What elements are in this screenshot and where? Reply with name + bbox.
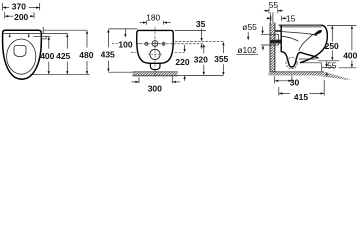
- rear view vertical centerline: [154, 27, 156, 77]
- dimension 320 (rear view): [194, 44, 208, 75]
- svg-text:355: 355: [214, 54, 228, 64]
- svg-text:400: 400: [40, 51, 54, 61]
- extension line (400 top ref / hinge axis): [46, 35, 50, 37]
- svg-text:370: 370: [12, 1, 26, 11]
- extension line (rear top edge, right): [174, 30, 206, 32]
- svg-text:415: 415: [294, 92, 308, 102]
- dimension 425 (plan depth): [56, 34, 70, 75]
- svg-text:ø102: ø102: [237, 45, 257, 55]
- svg-text:ø55: ø55: [242, 22, 257, 32]
- svg-text:55: 55: [269, 0, 279, 10]
- svg-text:435: 435: [101, 50, 115, 60]
- extension vertical (front base to floor): [321, 63, 323, 71]
- rear view outlet spigot (U shape): [150, 63, 160, 69]
- dashed row stub left of rear view: [131, 51, 136, 53]
- rear view outlet circle: [148, 49, 162, 59]
- drain outlet dashed circle: [286, 58, 297, 69]
- svg-text:55: 55: [327, 61, 337, 71]
- svg-text:200: 200: [14, 12, 28, 22]
- svg-text:400: 400: [343, 50, 357, 60]
- extension line (plan bottom ref): [30, 74, 90, 76]
- extension line (480 top ref): [43, 29, 88, 31]
- svg-text:480: 480: [79, 50, 93, 60]
- dashed ref row (bolt axis / 320): [136, 43, 204, 45]
- svg-text:300: 300: [148, 83, 162, 93]
- dimension 35 (rear view): [196, 19, 206, 49]
- plan water sump: [14, 46, 26, 57]
- label o102 with leader line: [237, 45, 259, 55]
- extension line (425 top ref): [41, 32, 68, 34]
- svg-text:250: 250: [325, 41, 339, 51]
- plan inlet stub (top right): [41, 36, 46, 39]
- ground hatch under side view: [269, 72, 352, 80]
- dimension 435 (front view height): [101, 29, 115, 72]
- rear view water inlet circle: [151, 40, 159, 48]
- extension line (middle floor ref left): [108, 71, 132, 73]
- extension verticals above wall: [269, 12, 271, 22]
- svg-text:35: 35: [196, 19, 206, 29]
- rear view fixing hole left: [145, 42, 148, 46]
- side view base band top: [299, 58, 317, 60]
- rear view fixing hole right: [162, 42, 165, 46]
- plan hinge right (tick and dot): [28, 34, 30, 36]
- side view rim underside line: [282, 32, 317, 36]
- side view bowl funnel interior line: [299, 34, 314, 51]
- dimension 220 (rear view): [175, 45, 189, 81]
- dimension 415 (side view bottom): [279, 80, 324, 102]
- svg-text:100: 100: [118, 40, 132, 50]
- dimension 480 (plan depth): [79, 30, 93, 74]
- wall section (hatched): [270, 23, 275, 72]
- plan cistern lid line: [3, 32, 40, 34]
- dimension 180 (rear view bolt spacing): [140, 13, 171, 25]
- fixing stud: [275, 30, 281, 32]
- svg-text:15: 15: [286, 13, 296, 23]
- extension line refC (400 floor ref): [339, 67, 356, 69]
- extension line refB (sump bottom): [322, 67, 335, 69]
- dimension 100 (rear view top to bolt axis): [112, 29, 142, 50]
- svg-text:220: 220: [175, 57, 189, 67]
- dimension 55 (side view bottom): [325, 61, 336, 77]
- plan flush bend notch line: [42, 27, 44, 34]
- dimension 355 (rear view): [214, 42, 228, 76]
- side view body back and sump outline: [281, 25, 318, 67]
- plan seat opening oval: [7, 39, 36, 74]
- plan view outer outline: [3, 30, 42, 79]
- dimension 30 (side view bottom): [275, 76, 300, 88]
- side view base band bottom: [300, 62, 322, 64]
- extension line refA (pan base): [318, 60, 339, 62]
- ground hatch under rear view: [133, 72, 178, 76]
- side view body outline front: [300, 25, 327, 63]
- dimension 55 (side view top): [264, 0, 283, 13]
- plan hinge axis line: [34, 35, 42, 37]
- dimension 370 (plan top): [3, 1, 40, 11]
- rear view outline: [137, 30, 174, 63]
- side view rim lip wedge: [314, 30, 322, 35]
- svg-text:30: 30: [290, 78, 300, 88]
- extension line (nose top ref): [327, 24, 356, 26]
- water inlet pipe (o55): [261, 34, 281, 45]
- dimension 250 (side view): [325, 26, 339, 61]
- dashed ref row (220): [175, 51, 185, 53]
- svg-text:425: 425: [56, 51, 70, 61]
- label o55 with leader arrow: [242, 22, 264, 50]
- dimension 400 (plan depth): [40, 37, 54, 75]
- extension line (floor ref right of rear view): [178, 74, 224, 76]
- dimension 15 (side view top): [266, 13, 295, 23]
- svg-text:180: 180: [146, 13, 160, 23]
- dimension 300 (rear view bottom): [131, 76, 180, 94]
- svg-text:320: 320: [194, 54, 208, 64]
- dimension 200 (plan top): [5, 12, 34, 22]
- dimension 400 (side view): [343, 26, 357, 68]
- plan hinge left (tick and dot): [9, 34, 11, 36]
- side view bowl back interior line: [282, 36, 299, 41]
- side view seat top lines: [279, 24, 322, 26]
- extension line (435 top ref): [108, 28, 137, 30]
- dashed ref row (35 upper): [175, 41, 223, 43]
